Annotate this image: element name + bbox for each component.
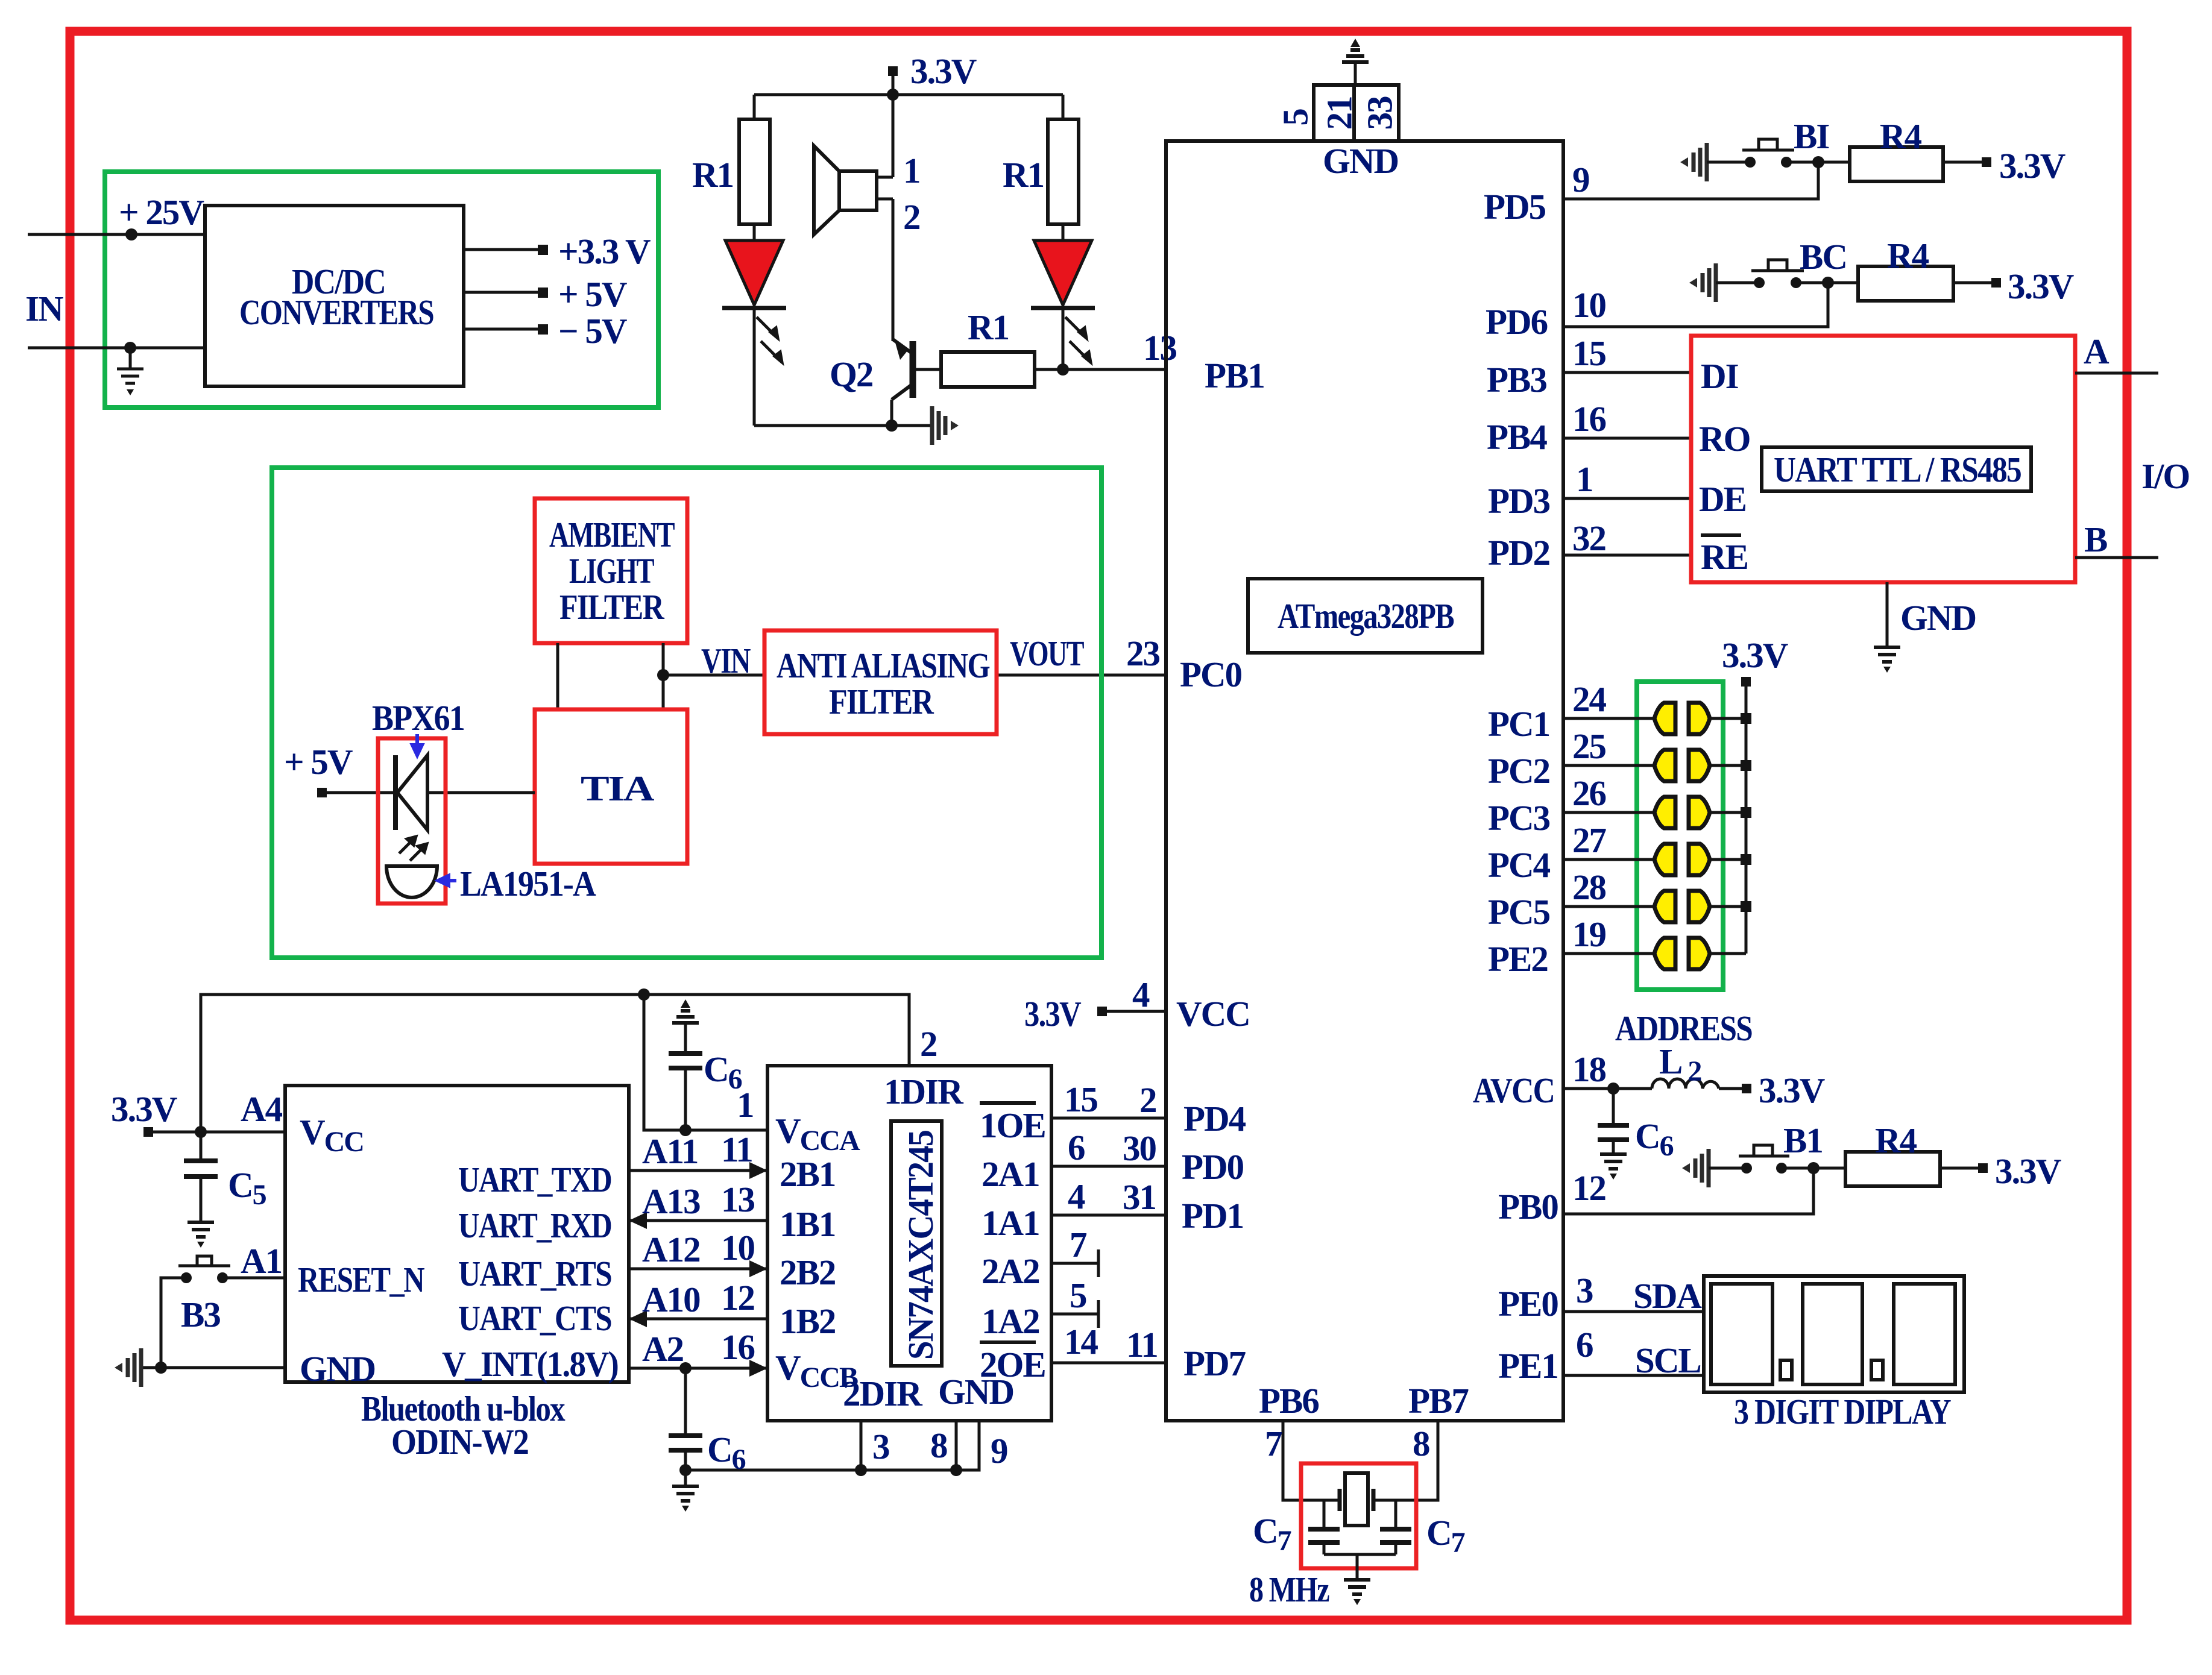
svg-text:30: 30: [1123, 1128, 1156, 1168]
wire ALF-TIA left: [556, 643, 559, 709]
wire PC1 to rail: [1710, 717, 1746, 720]
photodiode symbol: [395, 755, 427, 830]
svg-text:+ 5V: + 5V: [284, 742, 353, 782]
svg-text:2B1: 2B1: [780, 1154, 835, 1194]
junction pin3 rail: [855, 1464, 867, 1476]
svg-text:6: 6: [1068, 1128, 1085, 1167]
svg-text:27: 27: [1572, 820, 1607, 860]
resistor R4 (BC): [1858, 266, 1953, 301]
svg-text:PB0: PB0: [1498, 1187, 1558, 1227]
junction BC node: [1822, 277, 1834, 289]
junction right LED node: [1057, 363, 1069, 376]
svg-text:3.3V: 3.3V: [1024, 994, 1081, 1034]
block UART TTL / RS485: [1691, 336, 2075, 582]
wire IN bottom: [28, 347, 205, 350]
svg-text:VIN: VIN: [701, 641, 751, 680]
wire B output: [2075, 556, 2158, 559]
wire R4 to 3.3V (BC): [1953, 281, 1993, 284]
GND pin boxes 21/33 top: [1314, 85, 1354, 141]
wire R4 to 3.3V: [1943, 161, 1984, 164]
svg-text:+ 25V: + 25V: [119, 192, 204, 232]
label ATmega328PB: [1248, 579, 1483, 653]
button BC: [1754, 277, 1765, 288]
svg-text:GND: GND: [300, 1349, 375, 1389]
pin 8 (GND) wire: [955, 1421, 958, 1470]
svg-text:BPX61: BPX61: [372, 698, 464, 738]
junction input ground node: [124, 342, 136, 354]
svg-text:R1: R1: [1003, 155, 1044, 195]
svg-text:PE0: PE0: [1498, 1284, 1558, 1324]
block AMBIENT LIGHT FILTER: [535, 498, 687, 643]
wire UART GND: [1886, 582, 1889, 647]
svg-text:A10: A10: [642, 1280, 700, 1319]
wire PC4 to address: [1563, 858, 1654, 861]
wire R1 to LED left: [753, 224, 756, 240]
IC U1 ATmega328PB body: [1166, 141, 1563, 1421]
svg-text:11: 11: [721, 1130, 752, 1169]
svg-text:2A1: 2A1: [982, 1154, 1039, 1194]
diode pair PC4 left: [1654, 844, 1675, 875]
ground C5: [187, 1222, 214, 1248]
svg-text:1DIR: 1DIR: [884, 1072, 964, 1111]
svg-text:3.3V: 3.3V: [111, 1089, 177, 1129]
svg-text:PD6: PD6: [1486, 302, 1548, 342]
svg-text:23: 23: [1126, 633, 1160, 673]
IC U2 SN74AXC4T245 body: [767, 1066, 1051, 1421]
pin 3 (2DIR) wire: [860, 1421, 863, 1470]
svg-text:BI: BI: [1794, 116, 1829, 156]
svg-text:7: 7: [1070, 1225, 1087, 1265]
pin PD4 wire: [1051, 1117, 1166, 1120]
junction BI node: [1812, 156, 1824, 168]
svg-text:R4: R4: [1887, 236, 1929, 275]
diode pair PC4 right: [1689, 844, 1710, 875]
svg-text:3 DIGIT DIPLAY: 3 DIGIT DIPLAY: [1734, 1392, 1951, 1431]
crystal Y1: [1340, 1473, 1373, 1526]
svg-text:3.3V: 3.3V: [1999, 146, 2065, 186]
svg-text:3: 3: [1576, 1271, 1593, 1310]
svg-text:RE: RE: [1701, 537, 1748, 577]
block ANTI ALIASING FILTER: [764, 630, 997, 734]
wire PE2 to rail: [1710, 952, 1746, 955]
svg-text:VOUT: VOUT: [1010, 633, 1084, 673]
wire PB7 pin 8: [1373, 1421, 1438, 1500]
svg-text:7: 7: [1265, 1424, 1282, 1463]
svg-text:1B1: 1B1: [780, 1204, 835, 1244]
svg-text:ATmega328PB: ATmega328PB: [1278, 596, 1454, 636]
svg-text:DE: DE: [1699, 479, 1746, 519]
sensor section green box: [272, 468, 1101, 958]
svg-text:1A1: 1A1: [982, 1203, 1039, 1243]
wire PC3 to address: [1563, 811, 1654, 814]
wire BI ground to button: [1707, 161, 1750, 164]
wire Q2 base: [913, 368, 941, 371]
wire PC4 to rail: [1710, 858, 1746, 861]
wire B3 left to ground rail: [161, 1278, 186, 1368]
svg-text:+3.3 V: +3.3 V: [558, 231, 651, 271]
svg-text:14: 14: [1064, 1322, 1098, 1362]
wire LED left down: [753, 308, 756, 426]
wire 3.3V to BT VCC: [148, 1131, 285, 1134]
junction rail PC5: [1741, 901, 1751, 912]
svg-text:VCC: VCC: [1176, 994, 1250, 1034]
ground input: [117, 348, 143, 395]
svg-text:2: 2: [1139, 1080, 1156, 1120]
wire BC to R4: [1796, 281, 1858, 284]
ground BT (left pointing): [115, 1348, 141, 1387]
svg-text:GND: GND: [1323, 141, 1398, 181]
diode pair PC5 right: [1689, 891, 1710, 922]
wire PC2 to rail: [1710, 764, 1746, 767]
resistor R4 (B1): [1845, 1152, 1940, 1186]
svg-text:A1: A1: [241, 1241, 282, 1281]
wire PD3 to DE: [1563, 497, 1691, 500]
svg-text:PE2: PE2: [1488, 939, 1548, 979]
svg-text:UART_RTS: UART_RTS: [458, 1254, 611, 1293]
svg-text:3.3V: 3.3V: [910, 51, 977, 91]
pin 2A2 no-connect stub: [1051, 1262, 1098, 1265]
svg-text:GND: GND: [1900, 598, 1976, 638]
svg-text:B: B: [2084, 520, 2107, 559]
wire left R1 stub: [753, 95, 756, 119]
capacitor C7 left: [1323, 1500, 1326, 1529]
svg-text:2B2: 2B2: [780, 1252, 835, 1292]
svg-text:B1: B1: [1783, 1120, 1823, 1160]
svg-text:PD7: PD7: [1183, 1343, 1246, 1383]
wire L2 to 3.3V: [1719, 1087, 1744, 1090]
wire PC5 to rail: [1710, 905, 1746, 908]
ground B1 (left pointing): [1682, 1149, 1709, 1187]
svg-text:3: 3: [872, 1427, 889, 1466]
ground up symbol at GND pin: [1342, 39, 1369, 62]
svg-text:33: 33: [1360, 96, 1400, 130]
wire speaker pin2 down to Q2 collector: [892, 199, 895, 341]
wire UART_RTS to 2B2: [629, 1268, 767, 1271]
svg-text:1A2: 1A2: [982, 1301, 1039, 1341]
svg-text:12: 12: [1572, 1168, 1605, 1208]
diode pair PC3 right: [1689, 797, 1710, 828]
label UART TTL / RS485 box: [1762, 447, 2031, 491]
svg-text:FILTER: FILTER: [559, 587, 665, 627]
svg-text:+ 5V: + 5V: [558, 274, 627, 314]
svg-text:R1: R1: [692, 155, 733, 195]
diode pair PC2 right: [1689, 750, 1710, 781]
svg-text:11: 11: [1126, 1325, 1158, 1365]
svg-text:9: 9: [991, 1431, 1007, 1471]
inductor L2: [1652, 1079, 1719, 1089]
net 3.3V top rail: [888, 66, 898, 76]
wire GND pin up: [1354, 63, 1357, 85]
svg-text:FILTER: FILTER: [829, 682, 934, 721]
svg-text:PD0: PD0: [1182, 1147, 1244, 1187]
svg-text:PB7: PB7: [1408, 1381, 1469, 1421]
capacitor C6 (AVCC): [1612, 1089, 1615, 1125]
speaker LS1: [814, 146, 877, 234]
pin PD1 wire: [1051, 1214, 1166, 1217]
ADDRESS green box: [1637, 682, 1723, 990]
svg-text:PC4: PC4: [1488, 845, 1551, 885]
LED D2 light arrows: [1065, 317, 1091, 362]
wire PC1 to address: [1563, 717, 1654, 720]
decimal point 2: [1871, 1360, 1883, 1380]
junction VCC riser: [195, 1126, 207, 1138]
capacitor C6 bottom: [684, 1368, 687, 1436]
ground Q2 emitter (right pointing): [932, 406, 959, 445]
svg-text:2DIR: 2DIR: [843, 1374, 923, 1413]
svg-text:PC3: PC3: [1488, 798, 1550, 838]
svg-text:18: 18: [1572, 1049, 1606, 1089]
svg-text:PD3: PD3: [1488, 481, 1550, 521]
diode pair PC3 left: [1654, 797, 1675, 828]
svg-text:A11: A11: [642, 1131, 698, 1171]
capacitor C7 right: [1394, 1500, 1397, 1529]
svg-text:A2: A2: [642, 1329, 683, 1369]
svg-text:ANTI ALIASING: ANTI ALIASING: [777, 646, 990, 685]
svg-text:PD2: PD2: [1488, 533, 1549, 573]
LED D2 red right: [1034, 240, 1092, 305]
svg-text:1: 1: [903, 151, 920, 190]
diode pair PE2 left: [1654, 938, 1675, 969]
svg-text:A: A: [2084, 332, 2110, 371]
resistor R4 (BI): [1850, 147, 1943, 181]
pin 9 wire: [685, 1421, 979, 1470]
svg-text:PC0: PC0: [1180, 655, 1242, 694]
wire PC5 to address: [1563, 905, 1654, 908]
photodiode BPX61 red box: [378, 738, 446, 903]
wire V_INT to VCCB: [629, 1367, 767, 1370]
svg-text:Q2: Q2: [830, 354, 872, 394]
wire IN top: [28, 233, 205, 236]
junction B1 node: [1807, 1162, 1820, 1174]
svg-text:16: 16: [1572, 399, 1606, 439]
svg-text:2A2: 2A2: [982, 1251, 1039, 1291]
wire AVCC: [1563, 1087, 1652, 1090]
wire BC ground to button: [1716, 281, 1759, 284]
svg-text:3.3V: 3.3V: [2008, 266, 2074, 306]
wire +5V to photodiode: [322, 791, 535, 794]
wire VIN: [663, 674, 764, 677]
svg-text:3.3V: 3.3V: [1995, 1151, 2061, 1191]
svg-text:CONVERTERS: CONVERTERS: [239, 292, 433, 332]
junction Q2 emitter node: [886, 420, 898, 432]
svg-text:5: 5: [1276, 109, 1316, 126]
svg-text:UART TTL / RS485: UART TTL / RS485: [1774, 450, 2021, 489]
wire UART_CTS to 1B2: [629, 1318, 767, 1321]
diode pair PC2 left: [1654, 750, 1675, 781]
svg-text:1OE: 1OE: [980, 1105, 1045, 1145]
svg-text:ADDRESS: ADDRESS: [1615, 1008, 1752, 1048]
svg-text:2: 2: [920, 1024, 937, 1064]
resistor R1 base: [941, 352, 1035, 387]
junction C6/VCCA: [679, 1124, 692, 1136]
crystal red box: [1301, 1463, 1416, 1568]
svg-text:PD4: PD4: [1183, 1099, 1246, 1139]
svg-text:SCL: SCL: [1635, 1340, 1701, 1380]
svg-text:10: 10: [1572, 285, 1606, 325]
svg-text:21: 21: [1320, 97, 1360, 130]
wire +3.3V output: [464, 248, 540, 251]
wire -5V output: [464, 328, 540, 331]
junction VIN node: [657, 669, 669, 681]
junction rail PC3: [1741, 807, 1751, 818]
wire R4 to 3.3V (B1): [1940, 1167, 1980, 1170]
ground up C6 top: [672, 999, 699, 1023]
svg-text:SN74AXC4T245: SN74AXC4T245: [901, 1131, 941, 1360]
DC/DC converters block U-PS: [205, 206, 464, 386]
svg-text:UART_TXD: UART_TXD: [458, 1160, 611, 1199]
svg-text:2: 2: [903, 197, 920, 237]
wire BI to R4: [1786, 161, 1850, 164]
wire LED right down to node: [1062, 308, 1065, 369]
svg-text:25: 25: [1572, 726, 1606, 766]
svg-text:32: 32: [1572, 518, 1605, 558]
svg-text:10: 10: [721, 1228, 755, 1268]
svg-text:24: 24: [1572, 679, 1607, 719]
lens dome LA1951-A: [386, 866, 437, 897]
wire PC3 to rail: [1710, 811, 1746, 814]
diode pair PC1 left: [1654, 703, 1675, 734]
wire BT GND: [143, 1366, 285, 1369]
svg-text:DI: DI: [1701, 356, 1738, 396]
wire speaker pin 1: [877, 176, 893, 179]
junction GND node: [155, 1362, 167, 1374]
svg-text:R4: R4: [1875, 1120, 1917, 1160]
svg-text:A13: A13: [642, 1181, 700, 1221]
ground C6 AVCC: [1600, 1154, 1627, 1180]
button B1: [1741, 1163, 1752, 1174]
junction C6 bottom rail: [679, 1464, 692, 1476]
svg-text:PC2: PC2: [1488, 751, 1549, 791]
pin PD7 wire: [1051, 1362, 1166, 1365]
wire UART_RXD to 1B1: [629, 1219, 767, 1222]
pin PD0 wire: [1051, 1165, 1166, 1168]
svg-text:GND: GND: [938, 1372, 1013, 1412]
IC Bluetooth u-blox ODIN-W2 body: [285, 1086, 629, 1382]
svg-text:4: 4: [1068, 1177, 1085, 1216]
digit 2: [1803, 1284, 1862, 1384]
wire emitter rail: [754, 424, 930, 427]
ground BI (left pointing): [1680, 143, 1707, 181]
wire riser up and across to SN74: [201, 995, 909, 1132]
svg-text:8: 8: [930, 1425, 947, 1465]
svg-text:RESET_N: RESET_N: [298, 1260, 424, 1299]
resistor R1 left: [739, 119, 770, 224]
wire crystal bottom rail: [1324, 1553, 1396, 1556]
junction rail PC2: [1741, 760, 1751, 771]
pin 1A2 no-connect stub: [1051, 1313, 1098, 1316]
junction rail PC1: [1741, 713, 1751, 724]
svg-text:B3: B3: [181, 1295, 220, 1334]
digit 1: [1711, 1284, 1772, 1384]
svg-text:SDA: SDA: [1633, 1276, 1702, 1316]
svg-text:− 5V: − 5V: [558, 311, 627, 351]
pin PC0 wire: [997, 674, 1166, 677]
block TIA: [535, 709, 687, 864]
photodiode light arrows: [399, 837, 427, 861]
svg-text:AVCC: AVCC: [1473, 1070, 1554, 1110]
svg-text:V_INT(1.8V): V_INT(1.8V): [442, 1344, 618, 1384]
svg-text:9: 9: [1572, 160, 1589, 200]
svg-text:19: 19: [1572, 914, 1606, 954]
svg-text:UART_CTS: UART_CTS: [458, 1298, 611, 1338]
junction rail PC4: [1741, 854, 1751, 865]
svg-text:ODIN-W2: ODIN-W2: [391, 1422, 528, 1462]
wire B1 ground to button: [1709, 1167, 1747, 1170]
wire +5V output: [464, 291, 540, 294]
label SN74AXC4T245 inner box: [891, 1121, 942, 1366]
wire PB0 to B1 node: [1563, 1168, 1813, 1214]
svg-text:13: 13: [1143, 328, 1177, 368]
svg-text:TIA: TIA: [581, 768, 655, 808]
svg-text:PC5: PC5: [1488, 892, 1550, 932]
junction AVCC node: [1607, 1083, 1619, 1095]
ground crystal: [1344, 1580, 1370, 1605]
svg-text:1: 1: [1576, 459, 1593, 499]
svg-text:1B2: 1B2: [780, 1301, 835, 1341]
wire PC2 to address: [1563, 764, 1654, 767]
svg-text:8: 8: [1413, 1424, 1429, 1463]
LED D1 light arrows: [757, 317, 782, 362]
svg-text:PB1: PB1: [1205, 356, 1264, 395]
svg-text:AMBIENT: AMBIENT: [549, 515, 675, 555]
svg-text:3.3V: 3.3V: [1722, 635, 1788, 675]
wire PE2 to address: [1563, 952, 1654, 955]
wire PD6 to BC node: [1563, 283, 1828, 327]
wire PB6 pin 7: [1283, 1421, 1340, 1500]
power section green box: [105, 172, 658, 407]
svg-text:R4: R4: [1880, 116, 1922, 156]
LED D1 red left: [725, 240, 783, 305]
button B3: [181, 1272, 192, 1283]
wire B1 to R4: [1782, 1167, 1845, 1170]
wire PE1 SCL: [1563, 1374, 1704, 1377]
svg-text:LIGHT: LIGHT: [569, 551, 654, 591]
wire A output: [2075, 372, 2158, 375]
wire B3 to RESET_N: [222, 1277, 285, 1280]
pin VCC wire: [1102, 1010, 1166, 1013]
svg-text:I/O: I/O: [2141, 456, 2189, 496]
diode pair PC1 right: [1689, 703, 1710, 734]
junction V_INT C6 node: [679, 1362, 692, 1374]
svg-text:28: 28: [1572, 867, 1606, 907]
ground UART: [1874, 647, 1900, 673]
wire PE0 SDA: [1563, 1310, 1704, 1313]
diode pair PC5 left: [1654, 891, 1675, 922]
svg-text:26: 26: [1572, 773, 1606, 813]
svg-text:6: 6: [1576, 1325, 1593, 1365]
svg-text:LA1951-A: LA1951-A: [460, 864, 596, 903]
wire VCCA: [644, 995, 767, 1130]
svg-text:PB6: PB6: [1259, 1381, 1319, 1421]
svg-text:15: 15: [1572, 333, 1606, 373]
ground BC (left pointing): [1689, 263, 1716, 302]
capacitor C6 top (VCCA decoupling): [684, 1068, 687, 1130]
svg-text:13: 13: [721, 1180, 755, 1219]
digit 3: [1894, 1284, 1955, 1384]
svg-text:PD5: PD5: [1484, 187, 1546, 227]
wire 3.3V rail horizontal: [754, 93, 1063, 96]
svg-text:12: 12: [721, 1278, 754, 1318]
diode pair PE2 right: [1689, 938, 1710, 969]
svg-text:PC1: PC1: [1488, 704, 1549, 744]
wire R1 to PB1: [1035, 368, 1166, 371]
svg-text:15: 15: [1064, 1079, 1098, 1119]
svg-text:RO: RO: [1699, 419, 1750, 459]
svg-text:R1: R1: [968, 307, 1009, 347]
svg-text:PE1: PE1: [1498, 1346, 1558, 1386]
node +25V: [125, 228, 137, 240]
wire PD2 to RE: [1563, 554, 1691, 557]
